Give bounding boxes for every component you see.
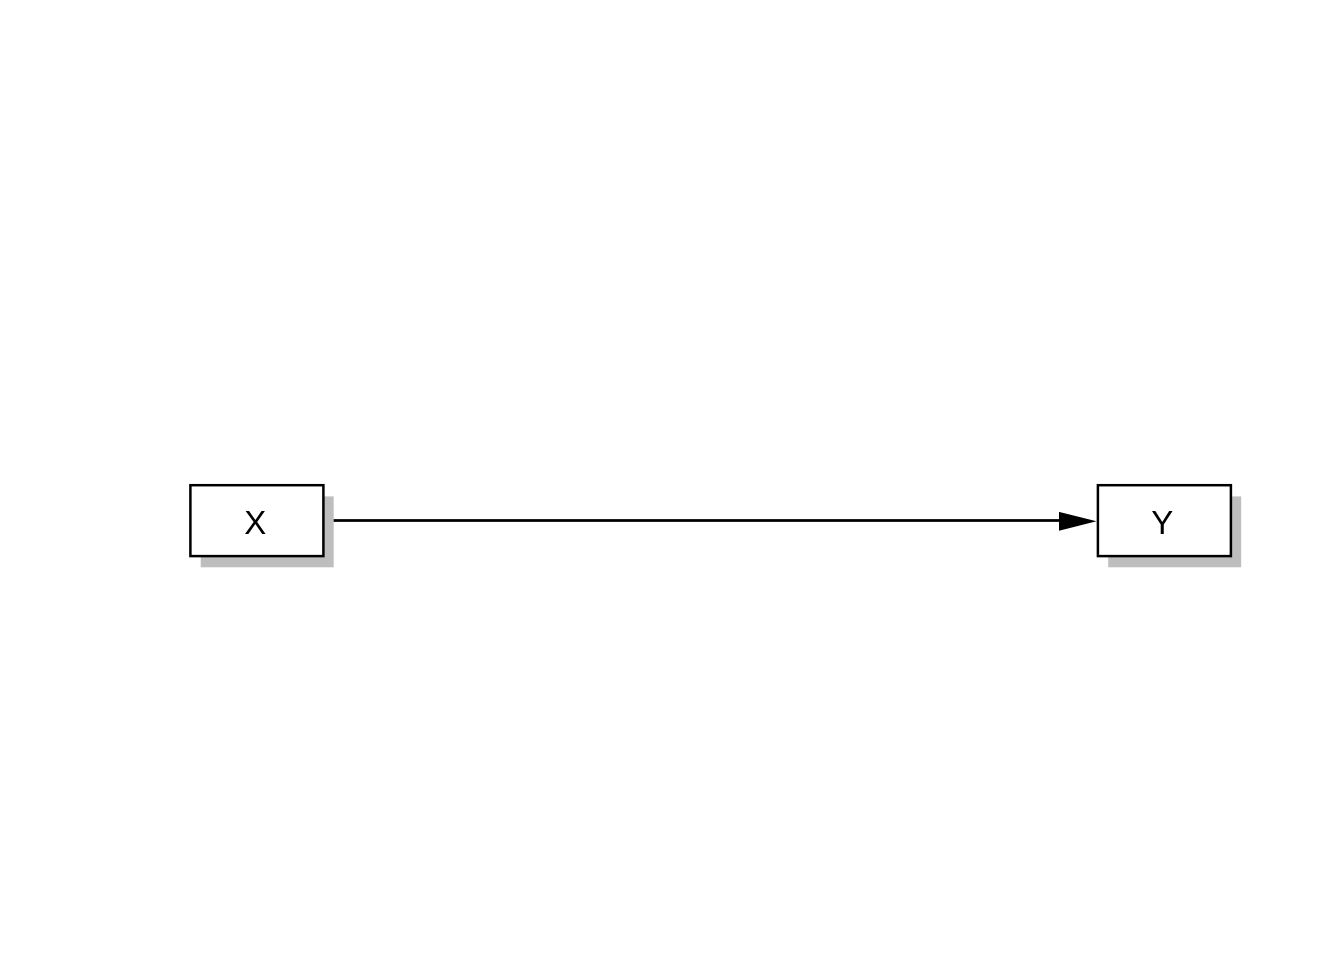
node X box [190, 485, 323, 556]
svg-text:Y: Y [1151, 504, 1173, 541]
arrowhead at Y [1059, 512, 1097, 531]
node X shadow [201, 496, 334, 567]
node Y shadow [1108, 496, 1241, 567]
node Y box [1098, 485, 1231, 556]
wire X to Y [325, 519, 1062, 522]
svg-text:X: X [244, 504, 266, 541]
